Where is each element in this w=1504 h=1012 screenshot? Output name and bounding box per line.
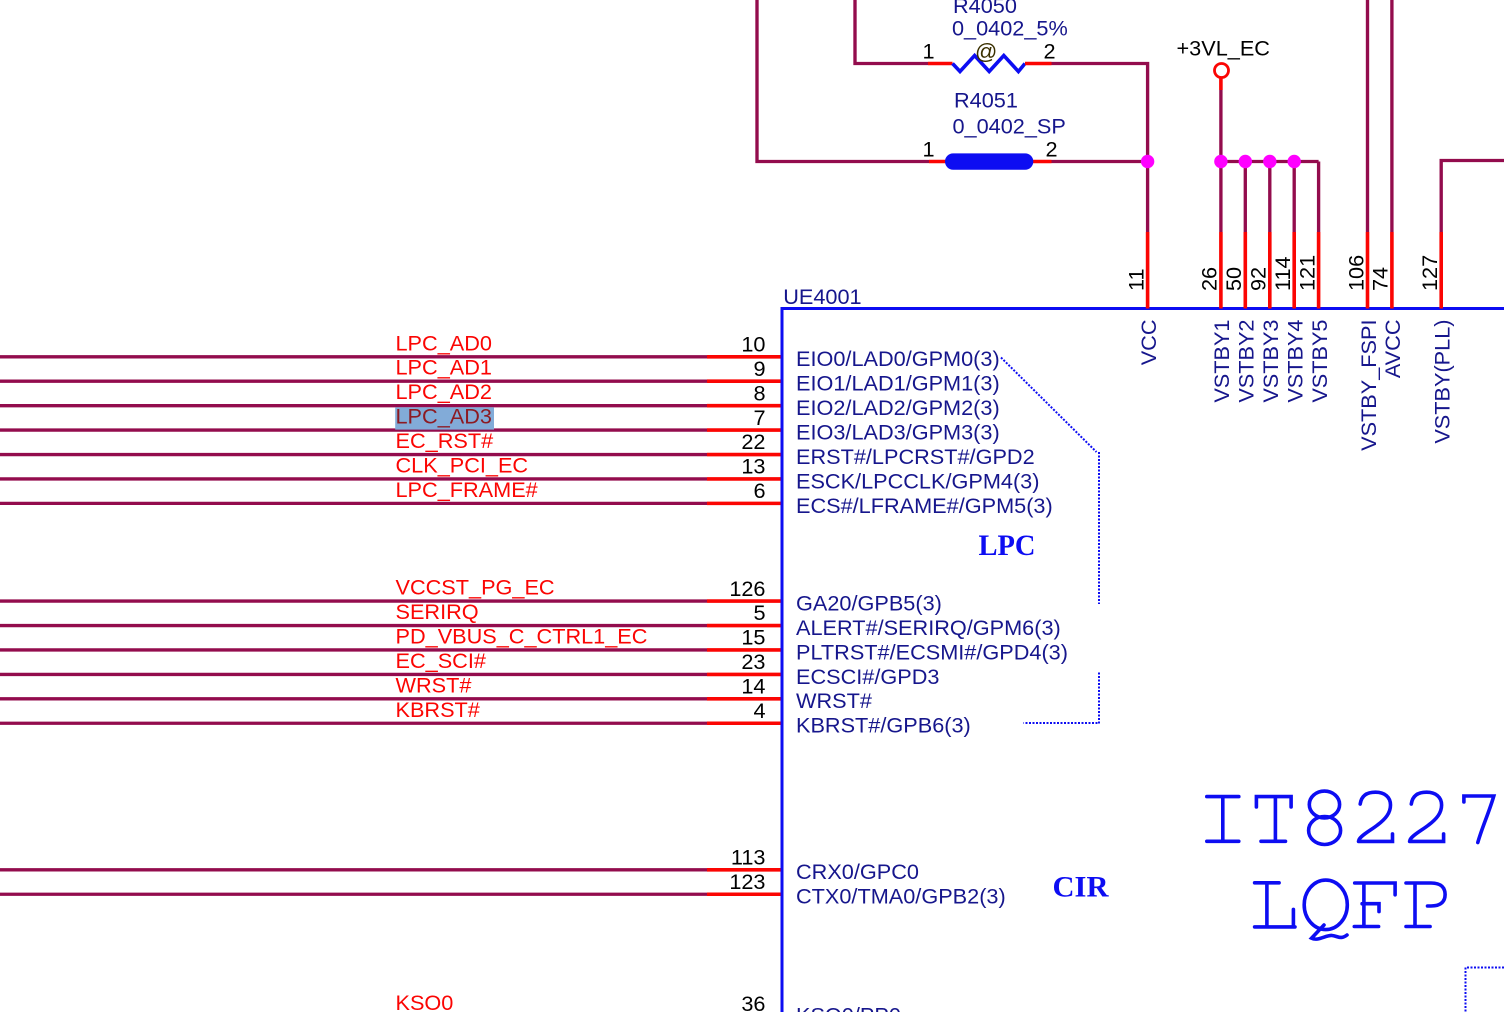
- svg-text:VSTBY3: VSTBY3: [1258, 320, 1283, 403]
- pin stub 4 (left pin): [707, 721, 782, 725]
- svg-text:ERST#/LPCRST#/GPD2: ERST#/LPCRST#/GPD2: [796, 444, 1035, 469]
- svg-text:EIO1/LAD1/GPM1(3): EIO1/LAD1/GPM1(3): [796, 371, 1000, 396]
- svg-text:11: 11: [1123, 268, 1148, 291]
- glyph P of LQFP: [1406, 883, 1445, 927]
- svg-text:113: 113: [731, 845, 766, 870]
- glyph 2 of IT8227: [1359, 792, 1393, 841]
- svg-text:10: 10: [741, 332, 765, 357]
- wire VSTBY_FSPI from top: [1366, 0, 1369, 232]
- svg-text:R4051: R4051: [954, 87, 1018, 112]
- svg-text:EIO0/LAD0/GPM0(3): EIO0/LAD0/GPM0(3): [796, 346, 1000, 371]
- glyph 2 of IT8227 (second): [1410, 792, 1444, 841]
- wire net VCCST_PG_EC row 10: [0, 599, 707, 602]
- svg-text:LPC_AD2: LPC_AD2: [396, 379, 492, 404]
- svg-text:LPC_AD0: LPC_AD0: [396, 330, 492, 355]
- resistor R4051 pin1 stub: [929, 160, 953, 164]
- wire net CRX0/GPC0 row 21: [0, 868, 707, 871]
- power symbol +3VL_EC: [1215, 64, 1229, 78]
- svg-text:KBRST#/GPB6(3): KBRST#/GPB6(3): [796, 713, 971, 738]
- pin stub 15 (left pin): [707, 648, 782, 652]
- dotted horizontal to KBRST# pin name: [1024, 722, 1098, 724]
- pin stub 7 (left pin): [707, 428, 782, 432]
- svg-text:PLTRST#/ECSMI#/GPD4(3): PLTRST#/ECSMI#/GPD4(3): [796, 639, 1068, 664]
- pin stub 50 (top pin): [1244, 232, 1248, 309]
- pin stub 26 (top pin): [1219, 232, 1223, 309]
- svg-text:EC_RST#: EC_RST#: [396, 428, 494, 453]
- svg-text:EC_SCI#: EC_SCI#: [396, 648, 486, 673]
- svg-text:VSTBY4: VSTBY4: [1283, 320, 1308, 403]
- svg-text:ALERT#/SERIRQ/GPM6(3): ALERT#/SERIRQ/GPM6(3): [796, 615, 1061, 640]
- svg-text:9: 9: [753, 356, 765, 381]
- svg-text:WRST#: WRST#: [796, 688, 872, 713]
- svg-text:VSTBY_FSPI: VSTBY_FSPI: [1356, 320, 1381, 451]
- svg-text:36: 36: [741, 991, 765, 1012]
- svg-text:ECSCI#/GPD3: ECSCI#/GPD3: [796, 664, 939, 689]
- svg-text:SERIRQ: SERIRQ: [396, 599, 479, 624]
- wire standby bus horizontal: [1221, 160, 1319, 163]
- pin stub 114 (top pin): [1292, 232, 1296, 309]
- pin stub 9 (left pin): [707, 379, 782, 383]
- wire vertical into R4050 pin1: [855, 0, 928, 64]
- resistor R4051 pin2 stub: [1024, 160, 1052, 164]
- svg-text:WRST#: WRST#: [396, 672, 472, 697]
- svg-text:VSTBY2: VSTBY2: [1234, 320, 1259, 403]
- pin stub 23 (left pin): [707, 673, 782, 677]
- svg-text:VCCST_PG_EC: VCCST_PG_EC: [396, 575, 555, 600]
- svg-text:VSTBY(PLL): VSTBY(PLL): [1430, 320, 1455, 444]
- junction at VCC branch: [1141, 155, 1154, 168]
- svg-text:EIO3/LAD3/GPM3(3): EIO3/LAD3/GPM3(3): [796, 419, 1000, 444]
- glyph I of IT8227: [1207, 797, 1239, 842]
- svg-text:LPC_FRAME#: LPC_FRAME#: [396, 477, 538, 502]
- glyph F of LQFP: [1354, 883, 1395, 927]
- svg-text:UE4001: UE4001: [783, 284, 861, 309]
- wire net LPC_AD1 row 1: [0, 380, 707, 383]
- svg-text:1: 1: [922, 137, 934, 162]
- svg-text:74: 74: [1368, 267, 1393, 291]
- svg-text:106: 106: [1343, 255, 1368, 291]
- svg-text:VCC: VCC: [1136, 320, 1161, 366]
- svg-text:LPC_AD3: LPC_AD3: [396, 404, 492, 429]
- svg-text:VSTBY5: VSTBY5: [1307, 320, 1332, 403]
- svg-text:14: 14: [741, 674, 765, 699]
- dotted vertical segment upper: [1098, 452, 1100, 604]
- wire net CTX0/TMA0/GPB2(3) row 22: [0, 893, 707, 896]
- pin stub 123 (left pin): [707, 892, 782, 896]
- svg-text:+3VL_EC: +3VL_EC: [1177, 36, 1270, 61]
- wire standby branch down: [1268, 162, 1271, 233]
- dotted vertical segment lower: [1098, 673, 1100, 724]
- svg-text:GA20/GPB5(3): GA20/GPB5(3): [796, 591, 942, 616]
- pin stub 127 (top pin): [1439, 232, 1443, 309]
- wire vertical into R4051 pin1: [757, 0, 929, 162]
- pin stub 74 (top pin): [1390, 232, 1394, 309]
- dotted link from EIO0 pin name: [1001, 358, 1097, 453]
- svg-text:KSO0/PP0: KSO0/PP0: [796, 1003, 901, 1012]
- svg-text:4: 4: [753, 698, 765, 723]
- svg-text:VSTBY1: VSTBY1: [1209, 320, 1234, 403]
- glyph 7 of IT8227: [1464, 796, 1494, 843]
- svg-text:15: 15: [741, 625, 765, 650]
- junction: [1239, 155, 1252, 168]
- svg-text:7: 7: [753, 405, 765, 430]
- svg-text:CRX0/GPC0: CRX0/GPC0: [796, 859, 919, 884]
- pin stub 126 (left pin): [707, 599, 782, 603]
- resistor R4050 body (zigzag): [953, 56, 1026, 72]
- svg-text:50: 50: [1221, 267, 1246, 291]
- resistor R4050 pin2 stub: [1025, 62, 1052, 66]
- svg-text:PD_VBUS_C_CTRL1_EC: PD_VBUS_C_CTRL1_EC: [396, 623, 648, 648]
- IC UE4001 chip outline (top-left corner of symbol): [782, 309, 1504, 1012]
- wire net EC_SCI# row 13: [0, 673, 707, 676]
- resistor R4050 pin1 stub: [928, 62, 953, 66]
- wire VSTBY5 branch down: [1317, 162, 1320, 233]
- svg-text:AVCC: AVCC: [1380, 320, 1405, 379]
- svg-text:CLK_PCI_EC: CLK_PCI_EC: [396, 452, 529, 477]
- pin stub 10 (left pin): [707, 355, 782, 359]
- svg-text:13: 13: [741, 454, 765, 479]
- svg-text:127: 127: [1417, 255, 1442, 291]
- svg-text:123: 123: [729, 869, 765, 894]
- svg-text:22: 22: [741, 429, 765, 454]
- svg-text:0_0402_SP: 0_0402_SP: [953, 113, 1066, 138]
- wire net EC_RST# row 4: [0, 453, 707, 456]
- resistor R4051 body (shorting bar): [945, 153, 1033, 169]
- pin stub 22 (left pin): [707, 453, 782, 457]
- wire net KBRST# row 15: [0, 722, 707, 725]
- wire net WRST# row 14: [0, 697, 707, 700]
- wire standby branch down: [1293, 162, 1296, 233]
- wire standby branch down: [1219, 162, 1222, 233]
- glyph 8 of IT8227: [1309, 791, 1341, 844]
- svg-text:0_0402_5%: 0_0402_5%: [952, 16, 1068, 41]
- junction: [1263, 155, 1276, 168]
- svg-text:26: 26: [1197, 267, 1222, 291]
- wire +3VL_EC down to standby bus: [1219, 90, 1222, 162]
- svg-text:CTX0/TMA0/GPB2(3): CTX0/TMA0/GPB2(3): [796, 884, 1006, 909]
- svg-text:EIO2/LAD2/GPM2(3): EIO2/LAD2/GPM2(3): [796, 395, 1000, 420]
- power pin stub (red) below symbol: [1219, 78, 1223, 91]
- svg-text:CIR: CIR: [1053, 872, 1110, 904]
- pin stub 121 (top pin): [1317, 232, 1321, 309]
- svg-text:8: 8: [753, 380, 765, 405]
- highlight on net LPC_AD3: [395, 407, 494, 429]
- svg-text:92: 92: [1246, 267, 1271, 291]
- svg-text:ECS#/LFRAME#/GPM5(3): ECS#/LFRAME#/GPM5(3): [796, 493, 1053, 518]
- wire net LPC_FRAME# row 6: [0, 502, 707, 505]
- svg-text:126: 126: [729, 576, 765, 601]
- pin stub 14 (left pin): [707, 697, 782, 701]
- pin stub 11 (top pin): [1146, 232, 1150, 309]
- svg-text:6: 6: [753, 478, 765, 503]
- wire net LPC_AD2 row 2: [0, 404, 707, 407]
- glyph Q of LQFP: [1304, 880, 1347, 939]
- pin stub 92 (top pin): [1268, 232, 1272, 309]
- svg-text:121: 121: [1294, 255, 1319, 291]
- svg-text:ESCK/LPCCLK/GPM4(3): ESCK/LPCCLK/GPM4(3): [796, 468, 1039, 493]
- svg-text:23: 23: [741, 649, 765, 674]
- svg-text:114: 114: [1270, 256, 1295, 291]
- wire net CLK_PCI_EC row 5: [0, 477, 707, 480]
- svg-text:5: 5: [753, 600, 765, 625]
- svg-text:@: @: [975, 39, 997, 64]
- wire net SERIRQ row 11: [0, 624, 707, 627]
- wire R4050 pin2 to VCC branch: [1052, 64, 1148, 162]
- wire net LPC_AD0 row 0: [0, 355, 707, 358]
- pin stub 8 (left pin): [707, 404, 782, 408]
- wire VSTBY(PLL) from right: [1441, 161, 1504, 233]
- svg-text:KBRST#: KBRST#: [396, 697, 480, 722]
- junction: [1214, 155, 1227, 168]
- junction: [1288, 155, 1301, 168]
- svg-text:2: 2: [1046, 137, 1058, 162]
- wire net PD_VBUS_C_CTRL1_EC row 12: [0, 648, 707, 651]
- pin stub 5 (left pin): [707, 624, 782, 628]
- svg-text:LPC: LPC: [979, 530, 1036, 562]
- pin stub 6 (left pin): [707, 502, 782, 506]
- wire net LPC_AD3 row 3: [0, 428, 707, 431]
- pin stub 106 (top pin): [1366, 232, 1370, 309]
- dotted corner bottom right: [1466, 968, 1504, 1012]
- glyph T of IT8227: [1256, 797, 1291, 842]
- wire standby branch down: [1244, 162, 1247, 233]
- wire AVCC from top: [1390, 0, 1393, 232]
- glyph L of LQFP: [1255, 883, 1295, 927]
- wire VCC branch down to pin 11: [1146, 162, 1149, 233]
- svg-text:2: 2: [1044, 39, 1056, 64]
- svg-text:LPC_AD1: LPC_AD1: [396, 355, 492, 380]
- svg-text:1: 1: [922, 39, 934, 64]
- wire R4051 pin2 to VCC branch: [1052, 160, 1148, 163]
- pin stub 113 (left pin): [707, 868, 782, 872]
- pin stub 13 (left pin): [707, 477, 782, 481]
- svg-text:KSO0: KSO0: [396, 990, 454, 1012]
